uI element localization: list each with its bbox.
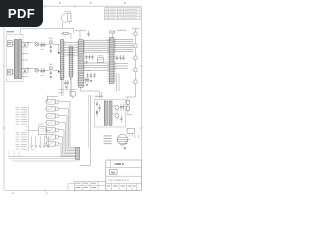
ground GND1 (50, 51, 53, 53)
wire: U2 to output connector (129, 133, 138, 138)
label TP row (31, 149, 34, 152)
PDF badge (0, 0, 43, 27)
node D (feed tap) (58, 71, 59, 72)
IC U1 (98, 58, 104, 63)
diode D1 (right chain) (132, 32, 138, 44)
optocoupler U5 (44, 121, 58, 126)
capacitor C8 (50, 70, 52, 76)
bus: J3 to J4 upper harness (83, 40, 109, 52)
bridge rectifier BR2 (35, 68, 39, 72)
wire: U3 output to bus line 2 (58, 108, 68, 110)
capacitor C26 (120, 104, 122, 112)
enclosure box around mains input (6, 35, 23, 82)
stub marks bottom-left (8, 151, 20, 157)
ground GND4 (90, 80, 93, 82)
connector J2 (68, 47, 74, 78)
title block bottom cells (107, 183, 137, 190)
capacitor C6 (40, 68, 42, 74)
enclosure box: flyback converter (94, 99, 125, 127)
logo: model badge (110, 169, 118, 174)
wire: U7 output to bus line 6 (58, 136, 62, 138)
connector J7 (harness exit) (76, 147, 80, 159)
wire: U4 output to bus line 3 (58, 115, 67, 117)
revision table (top right) (105, 8, 141, 20)
svg-text:LINE 6: LINE 6 (115, 162, 125, 166)
right-side component chain header (132, 29, 139, 32)
capacitor C30 (67, 80, 69, 86)
wire: ladder bus verticals with staircase exit (61, 102, 76, 157)
ground GND3 (85, 62, 87, 64)
diode D2 (right chain) (132, 44, 138, 56)
diode D5 (right chain) (132, 80, 138, 84)
ground GND10 (86, 84, 88, 86)
optocoupler U4 (44, 114, 58, 119)
wire: J3 bottom drop (81, 87, 102, 98)
resistor R4 (126, 104, 129, 113)
ground GND2 (50, 77, 53, 79)
connector J4 (108, 38, 116, 84)
capacitor C28 (120, 115, 122, 123)
wire: BR1 output (39, 43, 49, 45)
label VR2 value (49, 63, 53, 66)
label below J2 (58, 92, 63, 95)
bus: J1 to J3 harness (64, 43, 79, 56)
capacitor C3 (40, 42, 42, 48)
optocoupler U8 (44, 142, 58, 147)
ground GND8 (124, 147, 127, 149)
bus: right of J4 harness (114, 40, 134, 52)
capacitor C1 (24, 43, 26, 48)
title block (106, 160, 142, 190)
transformer T2 primary (104, 101, 107, 125)
regulator VR2 (49, 67, 52, 70)
svg-text:6d: 6d (111, 170, 115, 174)
capacitor C5 (50, 44, 52, 50)
capacitor C18 (122, 55, 124, 61)
capacitor C16 (116, 55, 118, 61)
capacitor C17 (119, 55, 121, 61)
wire: J4 aux drop to flyback (117, 74, 120, 92)
label J6 (125, 142, 128, 145)
wire: ladder top feed (48, 96, 58, 102)
label C3 value (41, 48, 44, 51)
transformer T1 primary winding (14, 40, 17, 79)
wire: rail to bridge BR1 (28, 42, 35, 44)
capacitor C12 (91, 55, 93, 61)
optocoupler U2 (44, 100, 58, 105)
bus: right of J4 lower harness (114, 64, 128, 69)
connector J3 (77, 40, 85, 88)
connector J1 (60, 40, 65, 80)
capacitor C14 (90, 73, 92, 79)
transformer T1 secondary winding (19, 40, 22, 79)
diode D3 (right chain) (132, 56, 138, 68)
label X1 value (38, 123, 44, 126)
filter module U2 (126, 128, 135, 133)
connector J6 (circular DIN output) (117, 134, 130, 146)
regulator VR1 (49, 41, 52, 44)
capacitor C29 (64, 80, 66, 86)
capacitor C31 (85, 78, 87, 84)
wire: U6 output to bus line 5 (58, 129, 64, 131)
wire: top feeds above J3 (75, 31, 86, 40)
resistor R2 (above J4) (110, 31, 115, 38)
label flyback note (127, 114, 133, 117)
capacitor C25 (98, 104, 100, 112)
resistor R1 (above J1) (61, 32, 72, 39)
node B (junction) (27, 68, 28, 69)
capacitor C13 (86, 73, 88, 79)
diode D6 (96, 109, 98, 117)
label: notes above right bus (117, 29, 127, 32)
wire: J1/J2 bottom drops (62, 77, 72, 96)
test point arrows TP1-TP5 (30, 137, 49, 148)
label VR1 value (49, 37, 53, 40)
capacitor C27 (122, 104, 124, 112)
wire: U8 output to bus line 7 (58, 143, 61, 145)
label C13 (86, 69, 90, 72)
capacitor C4 (43, 42, 45, 48)
capacitor C9 (87, 31, 89, 38)
wire: BR2 output (39, 69, 49, 71)
labels: output pin names (104, 136, 112, 145)
sheet border frame with zone ticks (2, 2, 143, 194)
bus: J3 to J4 lower harness (83, 63, 109, 70)
capacitor C7 (43, 68, 45, 74)
node E (junction row) (61, 79, 62, 80)
approval strip (left of title block) (68, 181, 106, 190)
wire: X1 to ladder rail (46, 129, 50, 131)
wire: pin list stubs (25, 111, 29, 130)
label U1 (98, 55, 103, 58)
capacitor C32 (87, 78, 89, 84)
connector J5 pin list (labels) (16, 107, 29, 151)
wire: top rail across sheet (21, 29, 74, 35)
resistor R3 (chain right of flyback) (126, 97, 129, 104)
crystal X1 (39, 127, 47, 135)
wire: secondary taps to rectifier rails (22, 43, 28, 77)
wire: X1 input (28, 129, 38, 131)
diode D4 (right chain) (132, 68, 138, 80)
label C6 value (41, 74, 44, 77)
IC U3 (small driver below J2) (70, 92, 75, 100)
capacitor C11 (88, 55, 90, 61)
switch SW1 (7, 70, 14, 76)
capacitor C10 (85, 55, 87, 61)
connector P1 (mains inlet) (7, 41, 14, 47)
wire: lower link (59, 89, 78, 91)
wire: long bottom harness runs (9, 157, 80, 161)
capacitor C15 (93, 73, 95, 79)
capacitor C24 (96, 101, 98, 108)
wire: aux rail down to harness (80, 95, 91, 166)
label U2 pins (125, 140, 128, 143)
svg-text:PSU POWER (DC) V1: PSU POWER (DC) V1 (109, 180, 131, 182)
bridge rectifier BR1 (35, 42, 39, 46)
ground GND9 (65, 87, 68, 89)
transformer T2 secondary (109, 101, 112, 125)
node F (junction) (70, 79, 71, 80)
transistor Q2 (112, 114, 119, 122)
wire: lower rail to bridge BR2 (28, 68, 35, 70)
optocoupler U7 (44, 135, 58, 140)
transistor Q1 (112, 106, 119, 114)
optocoupler U6 (44, 128, 58, 133)
label: flyback section title (95, 95, 103, 98)
node A (junction) (27, 42, 28, 43)
node C (feed tap) (58, 52, 59, 53)
wire: U5 output to bus line 4 (58, 122, 65, 124)
inductor L1 (top middle symbol) (62, 11, 72, 28)
optocoupler U3 (44, 107, 58, 112)
wire: U2 output to bus line 1 (58, 101, 70, 103)
wire: right chain to flyback (125, 84, 135, 97)
label: AC input section title (7, 31, 15, 32)
wire: rails to connector J1 (53, 44, 59, 72)
capacitor C2 (24, 69, 26, 74)
